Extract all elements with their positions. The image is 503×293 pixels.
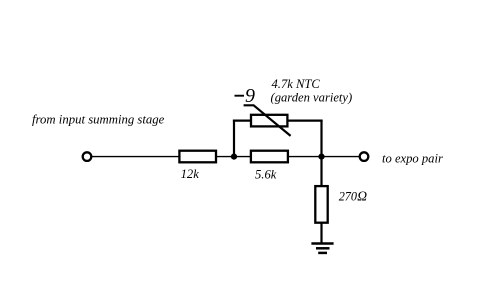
wire: branch right vertical down to node B bbox=[320, 120, 322, 157]
label: minus sign of -9 (theta) bbox=[235, 95, 245, 97]
terminal (input) bbox=[83, 152, 92, 161]
svg-text:Ω: Ω bbox=[357, 188, 367, 203]
svg-text:4.7k NTC: 4.7k NTC bbox=[272, 77, 321, 91]
svg-text:to expo pair: to expo pair bbox=[382, 152, 443, 166]
wire: input terminal to R 12k bbox=[92, 156, 179, 158]
svg-text:12k: 12k bbox=[181, 167, 200, 181]
wire: R 270 to ground bbox=[320, 223, 322, 243]
wire: node B to output terminal bbox=[322, 156, 360, 158]
node B (junction dot) bbox=[318, 154, 324, 160]
resistor R3 270 ohm bbox=[315, 186, 327, 223]
wire: branch top left horizontal bbox=[233, 119, 251, 121]
terminal (output) bbox=[360, 152, 369, 161]
wire: thermistor right to branch corner bbox=[288, 119, 323, 121]
svg-text:270: 270 bbox=[339, 189, 357, 203]
wire: node A up to thermistor branch bbox=[233, 120, 235, 158]
resistor R1 12k bbox=[179, 151, 216, 163]
wire: node B down to R 270 bbox=[320, 157, 322, 186]
thermistor diagonal stroke bbox=[244, 105, 291, 136]
svg-text:5.6k: 5.6k bbox=[255, 167, 277, 181]
resistor R2 5.6k bbox=[251, 151, 288, 163]
wire: R 12k to node A bbox=[217, 156, 250, 158]
svg-text:from input summing stage: from input summing stage bbox=[32, 112, 165, 126]
node A (junction dot) bbox=[231, 154, 237, 160]
svg-text:9: 9 bbox=[245, 85, 255, 107]
ground symbol bbox=[311, 244, 333, 253]
thermistor RT1 4.7k NTC body bbox=[251, 115, 287, 127]
svg-text:(garden variety): (garden variety) bbox=[271, 90, 353, 104]
wire: R 5.6k to node B bbox=[289, 156, 322, 158]
